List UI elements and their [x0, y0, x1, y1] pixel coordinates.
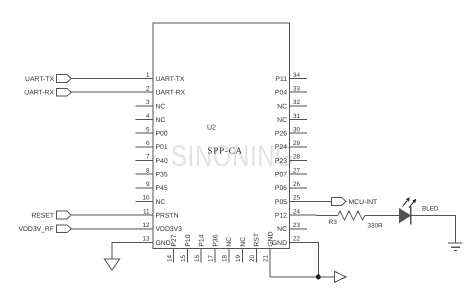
wire pin 25 to port MCU-INT: [307, 200, 331, 202]
svg-text:330R: 330R: [368, 222, 384, 229]
svg-text:17: 17: [208, 254, 215, 262]
svg-text:P24: P24: [275, 144, 287, 151]
pin 28 (P23): [275, 154, 307, 165]
svg-text:34: 34: [293, 72, 301, 79]
svg-text:32: 32: [293, 99, 301, 106]
svg-text:9: 9: [146, 181, 150, 188]
svg-text:26: 26: [293, 181, 301, 188]
svg-text:29: 29: [293, 140, 301, 147]
wire pin 24 to R3: [307, 214, 338, 217]
svg-text:P40: P40: [156, 158, 168, 165]
svg-text:8: 8: [146, 167, 150, 174]
svg-text:NC: NC: [277, 103, 287, 110]
svg-text:UART-TX: UART-TX: [156, 76, 185, 83]
svg-text:P45: P45: [156, 185, 168, 192]
svg-text:1: 1: [146, 72, 150, 79]
svg-text:RST: RST: [254, 233, 261, 247]
svg-text:15: 15: [180, 254, 187, 262]
svg-text:P14: P14: [199, 234, 206, 246]
wire RESET to pin 11: [71, 214, 135, 216]
wire R3 to LED: [365, 215, 400, 217]
pin 12 (VDD3V3): [136, 222, 183, 233]
pin 19 (NC): [235, 237, 247, 263]
svg-text:NC: NC: [156, 103, 166, 110]
svg-text:16: 16: [194, 254, 201, 262]
wire VDD3V_RF to pin 12: [71, 228, 135, 230]
svg-text:NC: NC: [277, 117, 287, 124]
svg-text:R3: R3: [329, 219, 338, 226]
svg-text:7: 7: [146, 154, 150, 161]
wire LED to earth ground: [411, 216, 455, 243]
svg-text:P05: P05: [275, 199, 287, 206]
pin 30 (P26): [275, 126, 307, 137]
pin 33 (P04): [275, 86, 307, 97]
svg-text:25: 25: [293, 195, 301, 202]
wire UART-RX to pin 2: [71, 91, 135, 93]
power port triangle: [335, 271, 347, 282]
pin 31 (NC): [277, 113, 307, 124]
earth ground (BLED): [448, 243, 463, 250]
svg-text:UART-RX: UART-RX: [156, 90, 186, 97]
pin 29 (P24): [275, 140, 307, 151]
svg-text:SPP-CA: SPP-CA: [208, 146, 243, 156]
port MCU-INT: [331, 198, 377, 206]
pin 2 (UART-RX): [136, 86, 186, 97]
wire UART-TX to pin 1: [71, 78, 135, 80]
pin 18 (NC): [221, 237, 233, 263]
svg-text:MCU-INT: MCU-INT: [349, 199, 378, 206]
port VDD3V_RF: [18, 225, 71, 233]
svg-text:18: 18: [221, 254, 228, 262]
IC U2 body: [153, 23, 290, 248]
svg-text:RESET: RESET: [31, 213, 54, 220]
svg-text:P36: P36: [212, 234, 219, 246]
wire pin 13 to ground: [112, 242, 153, 259]
pin 10 (NC): [136, 195, 166, 206]
svg-text:24: 24: [293, 208, 301, 215]
port UART-RX: [24, 88, 71, 96]
svg-text:P23: P23: [275, 158, 287, 165]
svg-text:UART-RX: UART-RX: [24, 90, 54, 97]
svg-text:20: 20: [249, 254, 256, 262]
pin 14 (P27): [166, 234, 178, 262]
svg-text:3: 3: [146, 99, 150, 106]
pin 22 (GND): [272, 236, 307, 247]
svg-text:30: 30: [293, 126, 301, 133]
pin 17 (P36): [208, 234, 220, 262]
svg-text:31: 31: [293, 113, 301, 120]
svg-text:P27: P27: [171, 234, 178, 246]
svg-text:P07: P07: [275, 172, 287, 179]
svg-text:BLED: BLED: [422, 205, 439, 212]
svg-text:NC: NC: [226, 237, 233, 247]
pin 1 (UART-TX): [136, 72, 185, 83]
pin 7 (P40): [136, 154, 168, 165]
svg-text:2: 2: [146, 86, 150, 93]
pin 11 (PRSTN): [136, 208, 179, 219]
svg-text:P12: P12: [275, 213, 287, 220]
pin 20 (RST): [249, 233, 261, 263]
junction: [316, 274, 321, 279]
port UART-TX: [25, 75, 71, 83]
pin 9 (P45): [136, 181, 168, 192]
svg-text:UART-TX: UART-TX: [25, 76, 54, 83]
svg-text:6: 6: [146, 140, 150, 147]
pin 15 (P10): [180, 234, 192, 262]
svg-text:VDD3V_RF: VDD3V_RF: [18, 226, 54, 233]
pin 24 (P12): [275, 208, 307, 219]
svg-text:P04: P04: [275, 90, 287, 97]
svg-text:5: 5: [146, 126, 150, 133]
svg-text:P06: P06: [275, 185, 287, 192]
svg-text:28: 28: [293, 154, 301, 161]
svg-text:13: 13: [142, 236, 150, 243]
pin 6 (P01): [136, 140, 168, 151]
svg-text:P10: P10: [185, 234, 192, 246]
port RESET: [31, 211, 71, 219]
svg-text:21: 21: [263, 254, 270, 262]
svg-text:4: 4: [146, 113, 150, 120]
LED BLED: [400, 197, 439, 224]
pin 27 (P07): [275, 167, 307, 178]
svg-text:U2: U2: [207, 124, 216, 131]
svg-text:P26: P26: [275, 131, 287, 138]
pin 5 (P00): [136, 126, 168, 137]
svg-text:VDD3V3: VDD3V3: [156, 226, 183, 233]
pin 32 (NC): [277, 99, 307, 110]
svg-text:23: 23: [293, 222, 301, 229]
svg-text:P11: P11: [275, 76, 287, 83]
pin 23 (NC): [277, 222, 307, 233]
wire pin 21 to junction: [270, 263, 318, 277]
svg-text:12: 12: [142, 222, 150, 229]
resistor R3 330R: [329, 211, 383, 229]
pin 25 (P05): [275, 195, 307, 206]
pin 26 (P06): [275, 181, 307, 192]
svg-text:11: 11: [143, 208, 150, 215]
svg-text:P00: P00: [156, 131, 168, 138]
pin 34 (P11): [275, 72, 307, 83]
svg-text:P35: P35: [156, 172, 168, 179]
pin 3 (NC): [136, 99, 166, 110]
svg-text:GND: GND: [156, 240, 171, 247]
wire pin 22 down to junction: [307, 242, 318, 277]
svg-text:22: 22: [293, 236, 301, 243]
pin 4 (NC): [136, 113, 166, 124]
ground (pin 13): [105, 259, 120, 270]
pin 8 (P35): [136, 167, 168, 178]
svg-text:NC: NC: [277, 226, 287, 233]
svg-text:NC: NC: [156, 117, 166, 124]
svg-text:NC: NC: [156, 199, 166, 206]
svg-text:27: 27: [293, 167, 301, 174]
svg-text:10: 10: [142, 195, 150, 202]
pin 13 (GND): [136, 236, 171, 247]
svg-text:19: 19: [235, 254, 242, 262]
svg-text:NC: NC: [240, 237, 247, 247]
svg-text:P01: P01: [156, 144, 168, 151]
pin 16 (P14): [194, 234, 206, 262]
svg-text:PRSTN: PRSTN: [156, 213, 179, 220]
svg-text:14: 14: [166, 254, 173, 262]
pin 21 (GND): [263, 231, 275, 262]
svg-text:33: 33: [293, 86, 301, 93]
wire junction to power port: [318, 276, 334, 278]
svg-text:GND: GND: [268, 231, 275, 246]
